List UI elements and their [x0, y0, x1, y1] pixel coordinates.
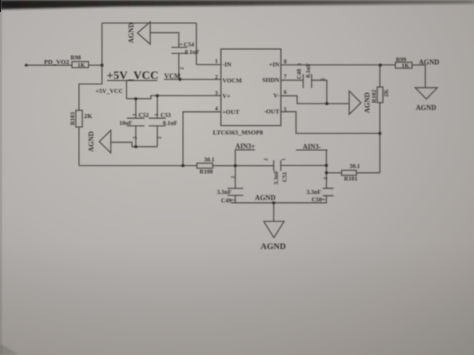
svg-text:AGND: AGND — [88, 131, 96, 152]
svg-text:AGND: AGND — [364, 92, 372, 113]
svg-text:3.3nF: 3.3nF — [217, 190, 232, 196]
wire C52 bottom stem — [135, 126, 137, 147]
wire bottom AGND symbol stem — [273, 203, 275, 222]
wire R99 to AGND — [412, 65, 425, 87]
wire down to pin1 — [195, 23, 197, 65]
svg-text:R100: R100 — [200, 169, 213, 175]
power bar +5V_VCC — [107, 80, 157, 82]
resistor R98 — [72, 62, 89, 68]
wire -IN node jog to R103 — [79, 65, 102, 110]
junction bottom AGND — [272, 201, 275, 204]
top dark bezel — [0, 0, 474, 9]
net AIN3+ underline — [235, 149, 255, 151]
svg-text:C49: C49 — [221, 198, 231, 204]
svg-text:3.3nF: 3.3nF — [274, 170, 280, 185]
svg-text:AGND: AGND — [416, 104, 437, 112]
svg-text:8: 8 — [284, 59, 287, 65]
wire C53 top stem — [156, 96, 158, 119]
wire +IN rail pin8 to R99 — [281, 64, 396, 66]
wire pin6 V- to AGND — [281, 96, 349, 104]
svg-text:C52: C52 — [139, 113, 149, 119]
wire C54 top stem to AGND stub — [150, 33, 178, 48]
wire R100 to AIN3+ node — [213, 165, 236, 167]
junction AIN3- node — [325, 164, 328, 167]
svg-text:AGND: AGND — [128, 23, 136, 44]
wire AIN3+ node to C51 — [235, 165, 273, 167]
svg-text:AGND: AGND — [255, 194, 276, 202]
wire PD_VO2 input stub — [25, 64, 72, 66]
wire C51 to AIN3- node — [281, 165, 327, 167]
junction caps ground rail — [134, 145, 137, 148]
svg-text:2: 2 — [215, 75, 218, 81]
svg-text:1K: 1K — [402, 64, 410, 70]
svg-text:4: 4 — [215, 106, 218, 112]
ground symbol AGND right (V-) — [349, 91, 361, 114]
resistor R102 — [377, 87, 383, 103]
svg-text:0.1uF: 0.1uF — [163, 121, 178, 127]
wire R101 to right vertical — [356, 172, 380, 174]
junction C48 to V- line — [325, 102, 328, 105]
capacitor C54 plates — [171, 47, 187, 53]
svg-text:0.1uF: 0.1uF — [185, 50, 200, 56]
svg-text:AIN3+: AIN3+ — [235, 144, 255, 151]
ground symbol AGND top-right (R99) — [415, 88, 437, 99]
svg-text:C51: C51 — [282, 172, 288, 182]
wire +5V_VCC power stem — [126, 81, 128, 99]
junction C52 tap — [134, 97, 137, 100]
svg-text:C48: C48 — [297, 69, 303, 79]
junction -IN node — [101, 64, 104, 67]
capacitor C51 plates — [274, 160, 281, 171]
svg-text:AGND: AGND — [261, 241, 286, 251]
svg-text:1K: 1K — [78, 63, 86, 69]
svg-text:-OUT: -OUT — [264, 108, 280, 115]
left dark edge — [0, 0, 2, 355]
svg-text:R98: R98 — [71, 56, 81, 62]
svg-text:5: 5 — [284, 108, 287, 114]
svg-text:VCM: VCM — [164, 73, 181, 80]
svg-text:AIN3-: AIN3- — [303, 144, 322, 151]
wire right vertical R102 to R101 — [379, 103, 381, 173]
wire AIN3- node to R101 — [326, 172, 341, 174]
svg-text:C54: C54 — [184, 42, 194, 48]
resistor R103 — [76, 110, 83, 127]
resistor R99 — [395, 62, 412, 68]
junction AIN3+ node — [234, 164, 237, 167]
wire R103 bottom to rail — [78, 127, 80, 166]
ground symbol AGND top (C54) — [138, 22, 151, 44]
ground symbol AGND left (caps) — [99, 130, 111, 153]
wire R98 to -IN node — [89, 64, 103, 66]
capacitor C49 plates — [228, 188, 244, 195]
capacitor C50 plates — [323, 188, 334, 195]
junction R102 / +IN rail — [379, 64, 382, 67]
wire C52 top stem — [135, 99, 137, 119]
junction VCM / C54 — [179, 78, 182, 81]
junction R101 tap — [325, 171, 328, 174]
wire top rail — [102, 22, 196, 24]
wire C48 right to V- line — [312, 80, 327, 103]
svg-text:30.1: 30.1 — [204, 158, 215, 164]
pin dot PD_VO2 port — [25, 64, 28, 67]
svg-text:2K: 2K — [384, 89, 390, 97]
svg-text:C50: C50 — [312, 198, 322, 204]
wire -IN node up — [101, 23, 103, 65]
wire AIN3- label drop through node to C50 — [325, 150, 327, 188]
svg-text:+IN: +IN — [269, 62, 280, 69]
wire caps ground rail to AGND — [111, 142, 158, 146]
svg-text:30.1: 30.1 — [350, 164, 361, 170]
svg-text:1: 1 — [215, 59, 218, 65]
svg-text:LTC6363_MSOP8: LTC6363_MSOP8 — [213, 130, 263, 137]
ground symbol AGND bottom — [264, 221, 284, 237]
junction +OUT to rail — [181, 164, 184, 167]
wire pin7 SHDN to C48 — [281, 79, 303, 81]
svg-text:AGND: AGND — [419, 59, 440, 67]
svg-text:R102: R102 — [372, 90, 378, 103]
wire C49 bottom stem — [234, 196, 236, 203]
junction C53 tap — [156, 94, 159, 97]
svg-text:SHDN: SHDN — [262, 77, 280, 84]
svg-text:7: 7 — [284, 75, 287, 81]
svg-text:R103: R103 — [70, 112, 76, 125]
wire C49 top stem — [234, 166, 236, 189]
svg-text:R101: R101 — [344, 177, 357, 183]
wire AGND bottom rail — [231, 202, 327, 204]
svg-text:PD_VO2: PD_VO2 — [44, 59, 70, 66]
wire pin1 -IN — [196, 64, 221, 66]
svg-text:3.3nF: 3.3nF — [307, 190, 322, 196]
wire VCM to pin2 — [164, 78, 221, 80]
resistor R100 — [197, 163, 213, 168]
svg-text:3: 3 — [215, 91, 218, 97]
wire R102 top lead — [379, 65, 381, 87]
net AIN3- underline — [296, 149, 328, 151]
svg-text:6: 6 — [284, 90, 287, 96]
wire +5V_VCC rail to pin3 — [127, 96, 221, 99]
wire C54 bottom stem — [178, 53, 180, 79]
resistor R101 — [342, 170, 357, 175]
svg-text:2K: 2K — [84, 113, 92, 120]
capacitor C53 plates — [149, 118, 166, 126]
svg-text:-IN: -IN — [222, 62, 231, 69]
svg-text:0.1uF: 0.1uF — [306, 63, 312, 78]
svg-text:V-: V- — [273, 92, 279, 99]
wire +OUT pin4 route — [183, 112, 221, 166]
svg-text:C53: C53 — [161, 113, 171, 119]
capacitor C48 plates — [303, 74, 311, 88]
junction -OUT / R102 — [378, 132, 381, 135]
wire C50 bottom stem — [325, 196, 327, 203]
capacitor C52 plates — [127, 118, 145, 126]
op-amp U1 LTC6363 body — [221, 49, 281, 126]
wire -OUT pin5 route — [281, 112, 380, 134]
svg-text:VOCM: VOCM — [222, 77, 242, 84]
svg-text:+OUT: +OUT — [222, 109, 240, 116]
bottom-left dark corner — [0, 344, 18, 355]
wire bottom-left rail — [79, 165, 197, 167]
wire C53 bottom stem — [156, 126, 158, 147]
svg-text:V+: V+ — [222, 93, 230, 100]
svg-text:+5V_VCC: +5V_VCC — [96, 88, 124, 95]
svg-text:+5V_VCC: +5V_VCC — [107, 69, 159, 82]
svg-text:10uF: 10uF — [119, 121, 132, 127]
wire AIN3+ label drop — [234, 150, 236, 166]
